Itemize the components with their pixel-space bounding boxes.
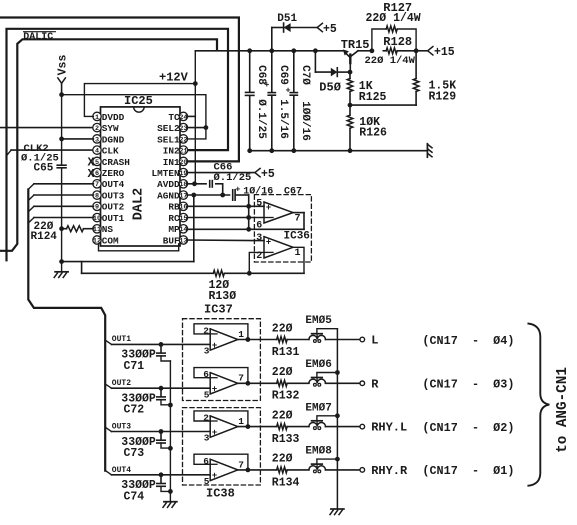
- resistor R125 1K: [347, 79, 353, 92]
- junction DGND dot: [59, 137, 64, 142]
- R128 name label: [383, 35, 412, 49]
- terminal RHY.R circle: [360, 468, 365, 473]
- C71 value label: [121, 349, 156, 362]
- R125 value label: [359, 80, 373, 93]
- IC25 pin 5 CRASH: [93, 157, 130, 168]
- terminal R circle: [360, 381, 365, 386]
- svg-text:X: X: [88, 168, 95, 181]
- svg-text:11: 11: [93, 226, 101, 234]
- svg-text:R126: R126: [359, 126, 387, 139]
- svg-text:(CN17 - Ø2): (CN17 - Ø2): [422, 421, 514, 435]
- capacitor C66 on AVDD row: [210, 181, 213, 187]
- svg-text:4: 4: [95, 148, 99, 156]
- ground symbol cap bus: [163, 502, 177, 508]
- svg-text:R128: R128: [383, 35, 412, 49]
- resistor R132 220: [277, 380, 288, 386]
- junction C66-AGND dot: [220, 193, 225, 198]
- svg-text:(CN17 - Ø3): (CN17 - Ø3): [422, 378, 514, 392]
- IC25 pin 11 NS: [93, 224, 114, 235]
- power symbol Vss arrow: [57, 55, 70, 84]
- svg-text:+: +: [264, 80, 269, 90]
- svg-text:3: 3: [256, 233, 262, 244]
- svg-text:L: L: [371, 334, 378, 348]
- IC25 pin 17 AGND: [157, 190, 188, 201]
- wire filter-cap ground bus: [169, 361, 171, 502]
- wire R130 row: [82, 272, 304, 274]
- junction Vss/DGND bus dot: [59, 92, 64, 97]
- svg-text:3: 3: [95, 136, 99, 144]
- R127 value label: [366, 12, 421, 25]
- pin label + input 5: [204, 389, 210, 400]
- svg-text:20: 20: [179, 159, 187, 167]
- wire OUT1 from bus with jog: [105, 340, 210, 344]
- terminal RHY.L label: [371, 421, 407, 435]
- wire IN1 net from left sheet edge to IC25 pin 20: [0, 18, 239, 162]
- svg-text:+: +: [235, 184, 240, 194]
- svg-text:C74: C74: [124, 490, 145, 503]
- wire SYW from left sheet edge to pin 2: [0, 127, 93, 129]
- wire RC row to op-amp -: [187, 217, 264, 219]
- svg-text:17: 17: [179, 192, 187, 200]
- junction output node dot: [246, 337, 251, 342]
- junction +15 node dot: [414, 48, 419, 53]
- wire RB row to op-amp +: [187, 205, 264, 207]
- IC36a pin 7 label: [295, 213, 301, 224]
- svg-text:1: 1: [238, 416, 244, 427]
- R132 value label: [272, 366, 293, 379]
- resistor R128 220 1/4W: [383, 48, 416, 54]
- wire to terminal: [326, 469, 361, 471]
- IC36b + marker: [266, 236, 271, 246]
- IC25 pin 19 LMTEN: [151, 168, 187, 179]
- wire left ground bus x=61.6: [61, 95, 63, 262]
- svg-text:R125: R125: [359, 91, 387, 104]
- pin label output 7: [238, 373, 244, 384]
- svg-text:(CN17 - Ø1): (CN17 - Ø1): [422, 464, 514, 478]
- svg-text:12: 12: [93, 237, 101, 245]
- C66 name label: [214, 161, 233, 173]
- wire +12V rail: [195, 50, 343, 52]
- junction output node dot: [246, 381, 251, 386]
- svg-text:15: 15: [179, 215, 187, 223]
- svg-text:+: +: [286, 85, 291, 95]
- wire BUF row to op-amp +: [187, 239, 264, 242]
- svg-text:Vss: Vss: [57, 55, 70, 76]
- R130 name label: [209, 290, 237, 303]
- wire Vss vertical and over-the-top run to SEL1/SEL2: [62, 83, 206, 139]
- op-amp IC38b triangle follower: [208, 459, 238, 480]
- OUT3 net label: [112, 422, 131, 431]
- R126 value label: [359, 116, 380, 129]
- svg-text:SEL1: SEL1: [157, 134, 180, 145]
- svg-text:22Ø: 22Ø: [272, 409, 293, 422]
- junction R127/R128 left dot: [370, 48, 375, 53]
- IC25 pin 1 DVDD: [93, 112, 125, 123]
- resistor R130 120: [213, 270, 224, 276]
- svg-text:C67: C67: [284, 186, 302, 197]
- R128 value label: [365, 55, 416, 67]
- svg-text:+: +: [212, 340, 217, 350]
- transistor TR15 NPN: [343, 49, 372, 72]
- IC25 pin 24 TC: [168, 112, 187, 123]
- svg-text:21: 21: [179, 148, 187, 156]
- pin label - input 2: [203, 413, 209, 424]
- wire D50 branch down: [314, 51, 316, 72]
- resistor R131 220: [277, 337, 288, 343]
- svg-text:3: 3: [204, 433, 210, 444]
- capacitor C71 3300P: [157, 344, 171, 361]
- wire COM to BUF U-link: [99, 244, 179, 251]
- svg-text:OUT3: OUT3: [102, 190, 125, 201]
- op-amp IC36 dashed package box: [254, 195, 311, 262]
- resistor R129 1.5K: [413, 79, 419, 92]
- wire OUT1 from pin to bus with jog: [28, 218, 93, 224]
- wire OUT3 from pin to bus with jog: [28, 195, 93, 201]
- connector label (CN17 - Ø2): [422, 421, 514, 435]
- svg-text:OUT4: OUT4: [102, 179, 125, 190]
- svg-text:2: 2: [95, 125, 99, 133]
- IC36a - marker: [265, 217, 273, 219]
- resistor R134 220: [277, 467, 288, 473]
- IC25 pin 15 RC: [168, 213, 187, 224]
- svg-text:22Ø 1/4W: 22Ø 1/4W: [365, 55, 416, 67]
- EMØ7 name label: [305, 402, 331, 414]
- IC36b pin 1 label: [295, 248, 301, 259]
- IC25 pin 8 OUT3: [93, 190, 125, 201]
- svg-text:+15: +15: [434, 46, 455, 59]
- wire +12V from pin1 DVDD up and right: [84, 84, 195, 117]
- svg-text:EMØ6: EMØ6: [305, 359, 331, 371]
- svg-text:Ø.1/25: Ø.1/25: [255, 99, 267, 139]
- R132 name label: [272, 390, 300, 403]
- IC25 pin 16 RB: [168, 202, 187, 213]
- IC25 pin 9 OUT2: [93, 202, 125, 213]
- svg-text:RHY.R: RHY.R: [371, 464, 408, 478]
- svg-text:RHY.L: RHY.L: [371, 421, 407, 435]
- IC25 pin 20 IN1: [163, 157, 188, 168]
- power symbol +5 arrow top: [317, 23, 337, 36]
- terminal L label: [371, 334, 378, 348]
- diode D50: [315, 68, 350, 77]
- pin label - input 6: [203, 456, 209, 467]
- IC36b pin 3 label: [256, 233, 262, 244]
- svg-text:C72: C72: [124, 404, 145, 417]
- wire CLK2 from pin 4 with jog to vertical: [7, 150, 94, 156]
- pin label output 1: [238, 416, 244, 427]
- junction C72 tap dot: [159, 386, 164, 391]
- capacitor C69 polarized with leads: [264, 51, 275, 151]
- feedback loop wire op 1: [194, 324, 248, 340]
- svg-text:9: 9: [95, 204, 99, 212]
- svg-text:AGND: AGND: [157, 190, 180, 201]
- connector label (CN17 - Ø4): [422, 334, 514, 348]
- junction C71 tap dot: [159, 342, 164, 347]
- svg-text:BUF: BUF: [163, 235, 180, 246]
- svg-text:RB: RB: [168, 202, 180, 213]
- wire output to resistor: [238, 382, 309, 384]
- IC25 label: [124, 94, 153, 108]
- svg-text:+: +: [266, 236, 271, 246]
- C72 name label: [124, 404, 145, 417]
- terminal L circle: [360, 337, 365, 342]
- power symbol +5 arrow at LMTEN: [255, 168, 275, 181]
- OUT4 net label: [112, 466, 131, 475]
- svg-text:5: 5: [204, 389, 210, 400]
- svg-text:+: +: [212, 384, 217, 394]
- EMØ6 name label: [305, 359, 331, 371]
- svg-text:TC: TC: [168, 112, 180, 123]
- svg-text:5: 5: [95, 159, 99, 167]
- svg-text:6: 6: [95, 170, 99, 178]
- op-amp IC38a triangle follower: [208, 416, 238, 437]
- IC25 pin 12 COM: [93, 235, 119, 246]
- EMI filter EMØ6: [309, 373, 338, 387]
- C74 name label: [124, 490, 145, 503]
- feedback loop wire op 3: [194, 411, 248, 427]
- C72 value label: [121, 393, 156, 406]
- svg-text:EMØ5: EMØ5: [305, 315, 332, 327]
- svg-text:SYW: SYW: [102, 123, 119, 134]
- R127 name label: [383, 1, 412, 15]
- svg-text:+5: +5: [261, 168, 275, 181]
- svg-text:R133: R133: [272, 433, 300, 446]
- R129 name label: [429, 91, 457, 104]
- wire OUT4 from bus with jog: [105, 471, 210, 475]
- junction RC dot: [246, 215, 251, 220]
- svg-text:DGND: DGND: [102, 134, 125, 145]
- IC25 pin 7 OUT4: [93, 179, 125, 190]
- svg-text:2: 2: [203, 413, 209, 424]
- IC25 pin 4 CLK: [93, 146, 119, 157]
- capacitor C68 with leads: [246, 51, 254, 151]
- op-amp IC36b triangle: [264, 237, 293, 258]
- pin label - input 6: [203, 369, 209, 380]
- junction bottom rail dots: [247, 148, 352, 153]
- svg-text:IC36: IC36: [284, 231, 310, 243]
- R133 value label: [272, 409, 293, 422]
- C69 value label: [277, 99, 289, 139]
- D51 name label: [277, 13, 297, 25]
- ground symbol EM bus: [330, 509, 344, 515]
- capacitor C67 polarized on AGND row: [233, 184, 241, 200]
- C73 name label: [124, 447, 145, 460]
- terminal R label: [371, 377, 379, 391]
- svg-text:+: +: [212, 427, 217, 437]
- svg-text:AVDD: AVDD: [157, 179, 180, 190]
- svg-text:+: +: [212, 470, 217, 480]
- ground symbol under left bus: [54, 262, 68, 278]
- capacitor C72 3300P: [157, 388, 171, 405]
- C71 name label: [124, 360, 145, 373]
- junction ground bus bottom dot: [59, 259, 64, 264]
- power symbol +15 arrow: [428, 46, 455, 59]
- svg-text:C69: C69: [277, 65, 289, 85]
- op-amp IC37b triangle follower: [208, 373, 238, 394]
- wire to terminal: [326, 382, 361, 384]
- svg-text:IC25: IC25: [124, 94, 153, 108]
- wire IC36b - input to R130 node: [249, 252, 264, 273]
- svg-text:22: 22: [179, 136, 187, 144]
- svg-text:C71: C71: [124, 360, 145, 373]
- resistor R133 220: [277, 424, 288, 430]
- EMI filter EMØ7: [309, 416, 338, 430]
- wire output to resistor: [238, 469, 309, 471]
- svg-text:+12V: +12V: [159, 71, 189, 85]
- svg-text:22Ø 1/4W: 22Ø 1/4W: [366, 12, 421, 25]
- svg-text:DALIC: DALIC: [23, 32, 53, 43]
- op-amp IC36a triangle: [264, 202, 293, 223]
- svg-text:IC37: IC37: [204, 303, 233, 317]
- junction C73 tap dot: [159, 429, 164, 434]
- OUT1 net label: [112, 335, 131, 344]
- D50 name label: [319, 80, 341, 94]
- junction +12V dot: [193, 81, 198, 86]
- EMØ8 name label: [305, 446, 332, 458]
- svg-text:ZERO: ZERO: [102, 168, 125, 179]
- junction cap bus dots: [168, 403, 173, 494]
- svg-text:6: 6: [203, 369, 209, 380]
- svg-text:13: 13: [179, 237, 187, 245]
- svg-text:10: 10: [93, 215, 101, 223]
- svg-text:TR15: TR15: [341, 38, 370, 52]
- pin label - input 2: [203, 325, 209, 336]
- IC25 pin 3 DGND: [93, 134, 125, 145]
- svg-text:2: 2: [203, 325, 209, 336]
- EMI filter EMØ8: [309, 459, 338, 473]
- svg-text:1Ø/16: 1Ø/16: [243, 185, 273, 197]
- svg-text:22Ø: 22Ø: [272, 453, 293, 466]
- svg-text:EMØ7: EMØ7: [305, 402, 331, 414]
- IC25 pin 22 SEL1: [157, 134, 188, 145]
- svg-text:DAL2: DAL2: [132, 188, 147, 220]
- junction R125/R129 dot: [348, 103, 353, 108]
- wire +15 stub: [416, 50, 428, 52]
- R124 name label: [31, 231, 58, 243]
- svg-text:22Ø: 22Ø: [272, 322, 293, 335]
- feedback loop wire op 2: [194, 368, 248, 384]
- wire OUT4 from pin to bus with jog: [28, 184, 93, 190]
- wire to terminal: [326, 339, 361, 341]
- IC25 pin 21 IN2: [163, 146, 188, 157]
- pin label + input 5: [204, 476, 210, 487]
- op-amp IC25 DAC body (DAL2) with top notch: [101, 107, 181, 246]
- C68 name label: [255, 65, 267, 85]
- wire to terminal: [326, 426, 361, 428]
- IC25 vertical part name DAL2: [132, 188, 147, 220]
- IC25 pin 13 BUF: [163, 235, 188, 246]
- svg-text:COM: COM: [102, 235, 119, 246]
- R126 name label: [359, 126, 387, 139]
- wire bottom rail: [250, 150, 428, 152]
- IC37 name label: [204, 303, 233, 317]
- X mark on pin 5 CRASH: [88, 157, 95, 170]
- X mark on pin 6 ZERO: [88, 168, 95, 181]
- IC36a + marker: [266, 202, 271, 212]
- IC36a pin 5 label: [256, 198, 262, 209]
- junction SEL2 dot: [204, 125, 209, 130]
- svg-text:(CN17 - Ø4): (CN17 - Ø4): [422, 334, 514, 348]
- svg-text:18: 18: [179, 181, 187, 189]
- wire AVDD row with series cap C66: [187, 184, 223, 195]
- IC36b pin 2 label: [256, 251, 262, 262]
- svg-text:C7Ø: C7Ø: [299, 65, 311, 85]
- svg-text:OUT1: OUT1: [112, 335, 131, 344]
- C68 value label: [255, 99, 267, 139]
- junction AGND tee dot: [191, 193, 196, 198]
- OUT2 net label: [112, 379, 131, 388]
- wire analog ground run to AGND vertical: [62, 261, 194, 263]
- wire TC stub: [187, 115, 195, 117]
- R124 value label: [34, 221, 54, 233]
- wire R124 left stub: [62, 228, 94, 230]
- svg-text:+: +: [266, 202, 271, 212]
- svg-text:D5Ø: D5Ø: [319, 80, 341, 94]
- svg-text:8: 8: [95, 192, 99, 200]
- op-amp IC37 dashed package box: [183, 319, 261, 401]
- EMØ5 name label: [305, 315, 332, 327]
- svg-text:R131: R131: [272, 346, 300, 359]
- junction EM tap dots: [335, 370, 340, 461]
- svg-text:R13Ø: R13Ø: [209, 290, 237, 303]
- svg-text:NS: NS: [102, 224, 114, 235]
- pin label + input 3: [204, 433, 210, 444]
- svg-text:CRASH: CRASH: [102, 157, 130, 168]
- IC36a pin 6 label: [256, 221, 262, 232]
- IC25 pin 2 SYW: [93, 123, 119, 134]
- wire rail to D51 branch: [271, 28, 273, 51]
- svg-text:IC38: IC38: [206, 487, 235, 501]
- IC25 pin 14 MP: [168, 224, 187, 235]
- junction TR15 base / D50 dot: [348, 70, 353, 75]
- IC36b - marker: [265, 251, 273, 253]
- svg-text:+5: +5: [323, 23, 337, 36]
- svg-text:Ø.1/25: Ø.1/25: [214, 172, 252, 184]
- diode D51: [272, 23, 317, 32]
- terminal RHY.L circle: [360, 424, 365, 429]
- svg-text:1ØØ/16: 1ØØ/16: [299, 101, 311, 141]
- R134 value label: [272, 453, 293, 466]
- svg-text:IN1: IN1: [163, 157, 180, 168]
- pin label + input 3: [204, 346, 210, 357]
- junction output node dot: [246, 424, 251, 429]
- IC36 name label: [284, 231, 310, 243]
- junction C74 tap dot: [159, 472, 164, 477]
- resistor R127 220 1/4W loop: [372, 26, 416, 51]
- C65 name label: [34, 163, 54, 175]
- resistor R124 220 to pin 11 NS: [67, 226, 84, 232]
- R131 name label: [272, 346, 300, 359]
- R133 name label: [272, 433, 300, 446]
- capacitor C74 3300P: [157, 475, 171, 492]
- capacitor C73 3300P: [157, 432, 171, 449]
- resistor R126 10K: [347, 115, 353, 128]
- svg-text:LMTEN: LMTEN: [151, 168, 180, 179]
- svg-text:OUT1: OUT1: [102, 213, 125, 224]
- svg-text:OUT3: OUT3: [112, 422, 131, 431]
- wire OUT3 from bus with jog: [105, 427, 210, 431]
- IC25 pin 10 OUT1: [93, 213, 125, 224]
- svg-text:C65: C65: [34, 163, 54, 175]
- wire OUT2 from pin to bus with jog: [28, 206, 93, 212]
- C69 name label: [277, 65, 289, 85]
- svg-text:7: 7: [95, 181, 99, 189]
- svg-text:1: 1: [295, 248, 301, 259]
- node +12V label: [159, 71, 189, 85]
- junction R130 feedback dot: [247, 271, 252, 276]
- pin label output 7: [238, 459, 244, 470]
- wire AGND down to analog ground run: [193, 195, 195, 262]
- wire +12V vertical to rail / TC / AVDD: [194, 51, 196, 184]
